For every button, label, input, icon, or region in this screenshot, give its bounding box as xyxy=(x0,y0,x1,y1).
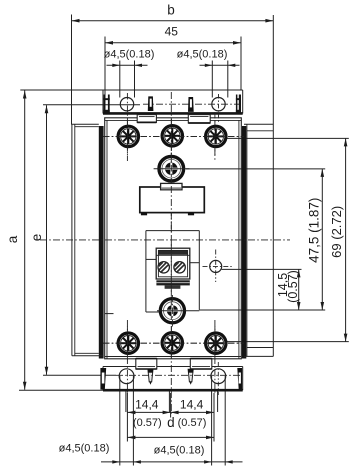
svg-text:ø4,5(0.18): ø4,5(0.18) xyxy=(177,48,228,60)
panel step left xyxy=(105,313,114,315)
hole centerline top-right xyxy=(218,94,220,122)
slot centerline continuation left xyxy=(125,392,127,413)
column centerline right xyxy=(214,112,216,161)
left flange plate xyxy=(72,124,104,355)
extension line 45 right xyxy=(240,37,242,91)
mounting hole top-right xyxy=(212,98,225,111)
centerline through top-right hole xyxy=(143,103,240,105)
block screw right xyxy=(174,262,185,273)
svg-text:ø4,5(0.18): ø4,5(0.18) xyxy=(154,445,205,457)
dimension line hole top-right xyxy=(200,64,240,67)
extension lines hole top-right xyxy=(211,61,213,98)
guide tab bottom-left xyxy=(136,359,157,369)
block lower tab xyxy=(165,285,181,288)
terminal screw bottom-left xyxy=(118,333,138,353)
dimension line b xyxy=(72,19,274,23)
column centerline left xyxy=(126,93,128,161)
extension line a top xyxy=(20,89,103,91)
extension lines hole top-left xyxy=(119,61,121,98)
top mounting bracket xyxy=(103,90,243,114)
terminal screw top-middle xyxy=(162,126,182,146)
extension lines slot left xyxy=(119,376,121,466)
guide tab bottom-right xyxy=(190,359,212,369)
extension line 69 top xyxy=(227,137,349,139)
mounting hole top-left xyxy=(120,98,133,111)
crosshair through bottom knob xyxy=(157,310,199,312)
crosshair through top knob xyxy=(154,168,190,170)
clip top edge-right xyxy=(236,95,241,114)
right flange plate xyxy=(244,15,273,356)
svg-text:a: a xyxy=(5,235,20,243)
centerline overdraw bottom screws xyxy=(103,326,244,360)
dimension line d xyxy=(127,436,214,440)
terminal screw top-right xyxy=(206,126,226,146)
screw row centerline top xyxy=(103,135,244,137)
terminal screw bottom-right xyxy=(206,333,226,353)
dimension line 14,4 xyxy=(127,411,214,415)
mounting slot bottom-right xyxy=(211,369,226,384)
screw row centerline bottom xyxy=(103,342,244,344)
extension line screw column left xyxy=(126,393,128,442)
dimension line 45 xyxy=(105,41,241,45)
terminal screw top-left xyxy=(118,126,138,146)
extension line e bottom xyxy=(43,374,116,376)
svg-text:ø4,5(0.18): ø4,5(0.18) xyxy=(59,443,110,455)
dimension line a xyxy=(23,91,27,390)
svg-text:69 (2.72): 69 (2.72) xyxy=(329,206,344,258)
extension line e top xyxy=(43,104,140,106)
clip bottom edge-right xyxy=(237,368,242,390)
svg-text:45: 45 xyxy=(165,25,179,39)
adjustment knob bottom xyxy=(160,299,184,323)
extension line 47,5 + 14,5 bottom xyxy=(199,309,325,311)
dimension line 69 xyxy=(344,138,348,341)
dimension line 14,5 xyxy=(297,269,301,310)
block screw left xyxy=(158,262,169,273)
extension line 14,5 top xyxy=(222,268,302,270)
centerline overdraw top screws xyxy=(103,119,244,155)
body shading bar left xyxy=(99,126,104,359)
dimension line slots bottom xyxy=(101,460,243,463)
small hole middle-right xyxy=(210,260,222,272)
extension lines slot right xyxy=(211,376,213,466)
svg-text:(0.57): (0.57) xyxy=(133,417,162,429)
clip bottom mid-right xyxy=(188,369,193,385)
label window foot right xyxy=(188,213,194,216)
main vertical centerline xyxy=(170,92,172,414)
control terminal block xyxy=(156,248,190,279)
panel outline middle xyxy=(146,231,199,312)
dimension line e xyxy=(45,105,49,375)
svg-text:47,5 (1.87): 47,5 (1.87) xyxy=(306,198,321,263)
slot centerline dashes xyxy=(116,374,240,376)
knob pedestal xyxy=(161,183,182,189)
body shading bar right xyxy=(242,126,246,359)
clip bottom mid-left xyxy=(148,369,153,385)
svg-text:(0.57): (0.57) xyxy=(286,270,300,303)
centerline continuation middle xyxy=(168,392,170,413)
dimension line 47,5 xyxy=(321,169,325,310)
block lower bar xyxy=(156,280,189,285)
mounting slot bottom-left xyxy=(119,369,134,384)
svg-text:14,4: 14,4 xyxy=(180,398,204,412)
extension line screw column right xyxy=(213,393,215,442)
svg-text:ø4,5(0.18): ø4,5(0.18) xyxy=(104,48,155,60)
svg-text:(0.57): (0.57) xyxy=(178,417,207,429)
extension line 45 left xyxy=(104,37,106,113)
slot centerline bottom-right xyxy=(217,362,219,395)
small hole centerline horizontal xyxy=(203,265,234,267)
extension line screw column middle xyxy=(170,393,172,418)
clip bottom edge-left xyxy=(100,368,106,390)
extension line b left xyxy=(71,15,73,125)
extension line 69 bottom xyxy=(227,341,349,343)
clip top mid-left xyxy=(148,96,154,111)
svg-text:d: d xyxy=(167,415,175,430)
dimension line hole top-left xyxy=(107,64,148,67)
label window foot left xyxy=(141,213,147,216)
svg-text:b: b xyxy=(167,3,175,18)
clip top mid-right xyxy=(188,97,194,112)
center column dash overdraw through window and block xyxy=(170,186,172,232)
bottom mounting bracket xyxy=(103,367,243,391)
terminal screw bottom-middle xyxy=(162,333,182,353)
main horizontal centerline xyxy=(40,239,290,241)
extension line a bottom xyxy=(19,389,103,391)
guide tab top-right xyxy=(188,115,210,123)
clip top edge-left xyxy=(104,95,110,114)
slot centerline continuation right xyxy=(217,392,219,413)
guide tab top-left xyxy=(137,115,156,123)
small hole centerline vertical xyxy=(215,250,217,283)
adjustment knob top xyxy=(159,156,184,181)
body outline xyxy=(105,118,242,359)
svg-text:14,4: 14,4 xyxy=(135,398,159,412)
extension line 47,5 top xyxy=(186,168,325,170)
label window xyxy=(140,187,205,213)
